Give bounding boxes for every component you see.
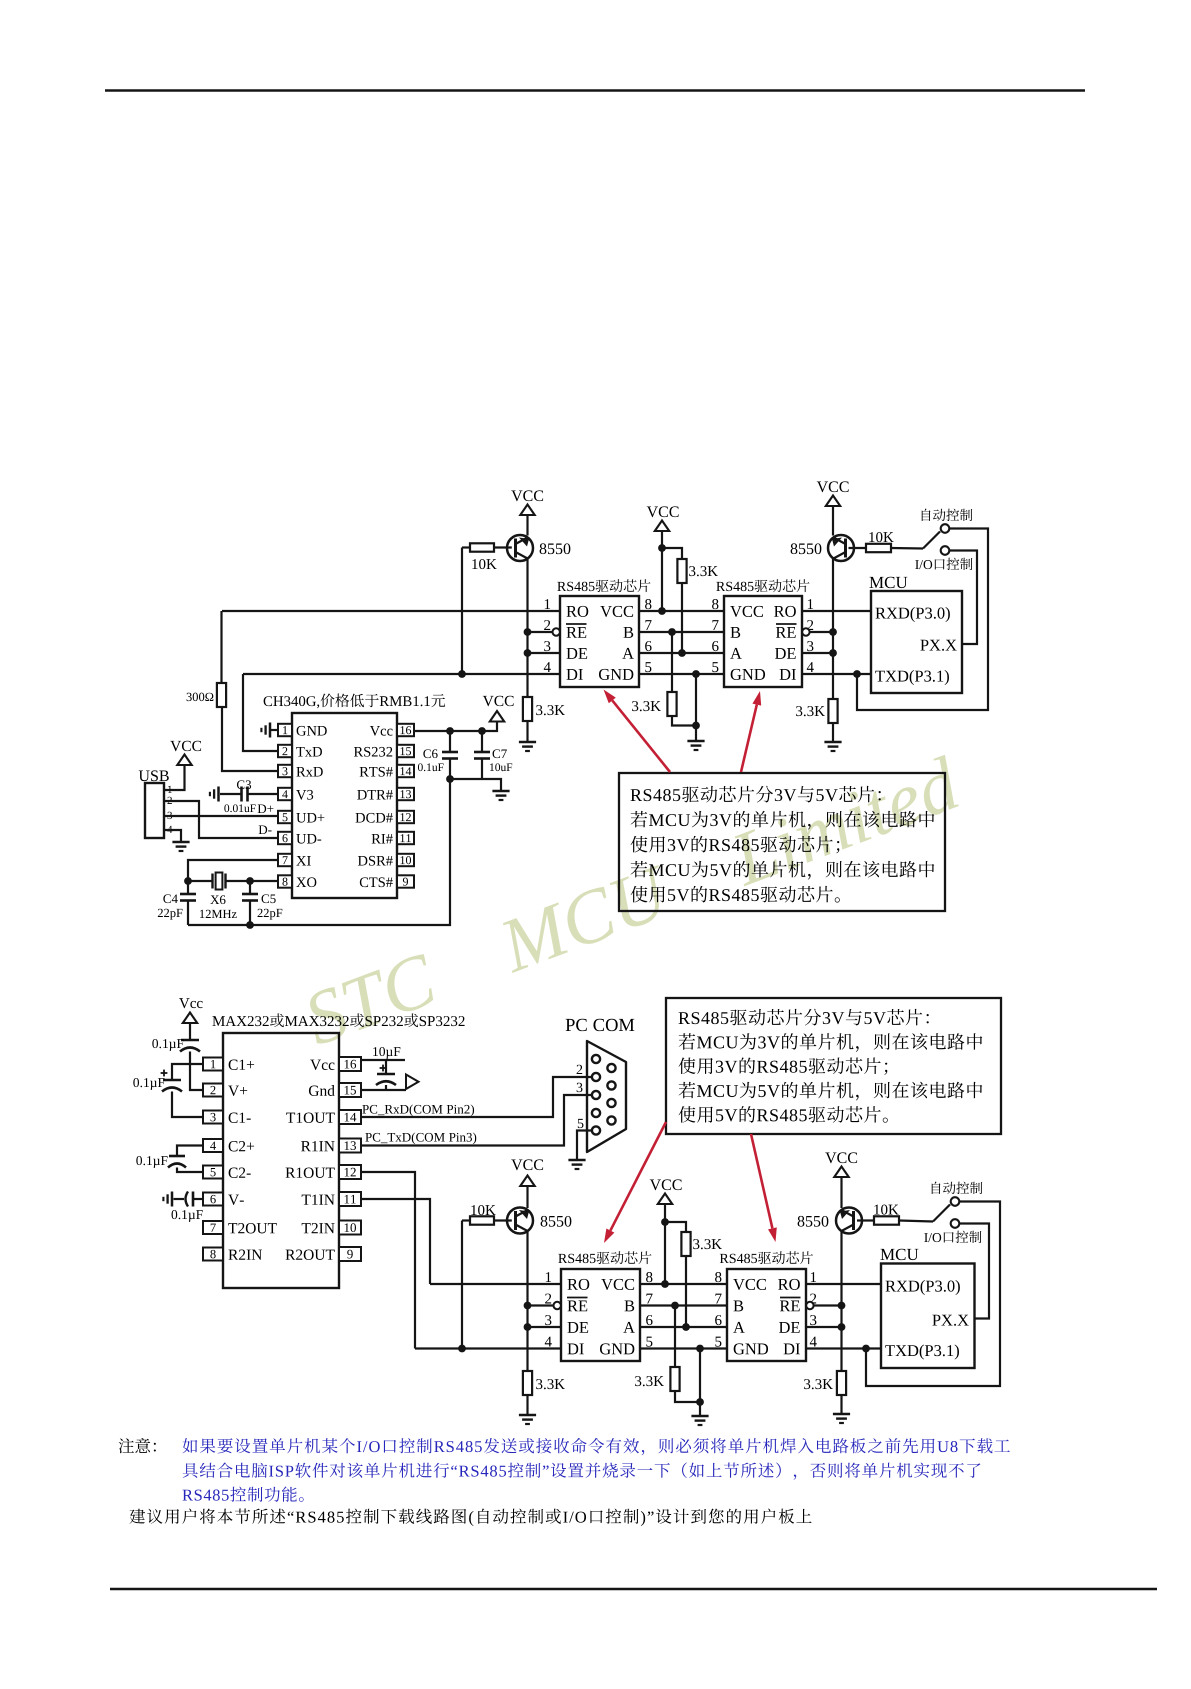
note box top line 3 — [631, 836, 648, 852]
red arrow to U2 — [612, 700, 670, 772]
connector PC COM DB9 — [566, 1019, 575, 1031]
MAX232 pin 3 C1- — [203, 1111, 223, 1124]
note box top line 1 — [631, 789, 642, 801]
red arrow to U6 — [610, 1122, 666, 1231]
note box RS485 driver 3V/5V bottom — [666, 998, 1001, 1134]
wire R1OUT to DI net — [361, 1172, 415, 1349]
DB9 hole left 1 — [592, 1055, 600, 1063]
wire U7 RO to MCU RXD — [806, 1283, 881, 1285]
U3 pin 4 DI — [807, 662, 814, 672]
note box RS485 driver 3V/5V top — [619, 773, 945, 911]
ground symbol at CH340G pin1 GND — [271, 729, 278, 731]
MAX232 pin 12 R1OUT — [339, 1165, 361, 1179]
note box bottom line 4 — [679, 1082, 696, 1099]
ground below Q1 3.3K — [519, 741, 536, 744]
ground at USB pin4 — [172, 841, 189, 844]
wire USB pin4 to ground — [164, 830, 181, 842]
wire USB pin1 to VCC — [164, 765, 185, 790]
note box bottom line 3 — [679, 1058, 696, 1074]
ground below C7 — [492, 790, 509, 793]
CH340G pin 7 XI — [278, 854, 292, 866]
CH340G pin 3 RxD — [278, 765, 292, 777]
U6 pin 8 VCC — [646, 1272, 652, 1282]
VCC symbol between U2 U3 — [647, 507, 658, 518]
wire Vcc pin16 net — [414, 722, 497, 731]
note box bottom line 2 — [679, 1033, 696, 1050]
note box bottom line 1 — [679, 1012, 690, 1024]
watermark STC MCU Limited — [299, 755, 963, 1047]
wire USB pin2 D- net — [164, 801, 278, 838]
capacitor 10uF at MAX232 Vcc pin16 — [361, 1059, 405, 1061]
crystal X6 12MHz — [188, 880, 213, 882]
resistor 3.3K pulldown B line bottom — [674, 1306, 676, 1368]
resistor 3.3K pullup A line bottom — [665, 1222, 686, 1232]
U7 pin 3 DE — [810, 1315, 816, 1325]
wire 10K to DI net — [461, 548, 463, 675]
transistor Q2 8550 with VCC — [817, 482, 828, 493]
wire U6 DI net — [415, 1347, 561, 1349]
resistor 10K at Q3 base — [462, 1219, 470, 1221]
U7 pin 1 RO — [811, 1272, 816, 1282]
IC U3 RS485 driver chip 2 — [716, 582, 725, 591]
MAX232 pin 10 T2IN — [339, 1221, 361, 1235]
wire GND net U6-U7 — [640, 1347, 727, 1349]
MAX232 pin 13 R1IN — [339, 1139, 361, 1153]
resistor 3.3K below Q2 — [828, 699, 837, 723]
wire S2 upper throw to TXD net — [866, 1202, 1000, 1387]
DB9 hole right 4 — [607, 1116, 615, 1124]
resistor 3.3K below Q3 — [523, 1371, 532, 1395]
DB9 hole right 1 — [607, 1064, 615, 1072]
capacitor 0.1uF C2+ to C2- — [177, 1146, 203, 1157]
MAX232 pin 4 C2+ — [203, 1139, 223, 1152]
CH340G pin 12 DCD# — [397, 811, 414, 823]
note box top line 5 — [631, 886, 648, 902]
resistor 3.3K below Q1 — [523, 697, 532, 721]
capacitor C5 22pF — [249, 881, 251, 894]
DB9 hole right 3 — [607, 1099, 615, 1107]
IC U2 RS485 driver chip 1 — [557, 582, 566, 591]
note box bottom line 5 — [679, 1106, 696, 1122]
U2 pin 3 DE — [544, 641, 550, 651]
DB9 hole right 2 — [607, 1081, 615, 1089]
wire R1IN to DB9 pin3 — [361, 1095, 592, 1146]
CH340G pin 16 Vcc — [397, 724, 414, 736]
label PC_RxD(COM Pin2) — [362, 1105, 368, 1114]
CH340G pin 10 DSR# — [397, 854, 414, 866]
U8 pin TXD(P3.1) — [885, 1345, 895, 1356]
wire S2 lower throw to PX.X — [959, 1224, 989, 1319]
transistor Q1 8550 with VCC — [511, 491, 522, 502]
CH340G pin 4 V3 — [278, 788, 292, 800]
wire RxD to 300ohm resistor — [222, 707, 278, 771]
U2 pin 7 B — [645, 620, 651, 630]
U7 pin 2 RE — [810, 1294, 816, 1304]
resistor 10K at Q4 base — [857, 1219, 874, 1221]
U4 pin PX.X — [920, 640, 928, 651]
U2 pin 2 RE — [544, 620, 550, 630]
U3 RE bubble and wire — [802, 628, 809, 635]
U6 pin 6 A — [646, 1315, 652, 1325]
wire U3 DI to MCU TXD — [802, 673, 871, 675]
border line bottom — [110, 1588, 1157, 1591]
U7 pin 4 DI — [810, 1337, 817, 1347]
capacitor C7 10uF — [481, 731, 483, 752]
wire C6 C7 to ground — [450, 779, 501, 791]
CH340G pin 15 RS232 — [397, 745, 414, 757]
label PC_TxD(COM Pin3) — [365, 1133, 371, 1142]
CH340G pin 2 TxD — [278, 745, 292, 757]
ground below DB9 — [568, 1159, 585, 1162]
wire 300ohm to RO net — [220, 611, 222, 683]
U8 pin RXD(P3.0) — [885, 1281, 896, 1292]
U3 pin 2 RE — [807, 620, 813, 630]
MAX232 pin 8 R2IN — [203, 1248, 223, 1261]
IC U5 MAX232 body — [223, 1033, 339, 1288]
U3 pin 5 GND — [712, 662, 718, 672]
DB9 hole left 3 — [592, 1091, 600, 1099]
IC U6 RS485 driver chip 3 — [558, 1254, 567, 1263]
DB9 hole left 4 — [592, 1109, 600, 1117]
note text line 2 — [183, 1463, 198, 1478]
wire VCC net U2-U3 — [639, 610, 724, 612]
wire Q1 collector down — [526, 559, 528, 697]
USB connector J1 — [139, 771, 150, 782]
suggestion text line — [129, 1509, 145, 1524]
wire A net U2-U3 — [639, 652, 724, 654]
wire XI net — [188, 860, 278, 881]
capacitor 0.1uF at MAX232 V+ — [181, 1039, 199, 1042]
capacitor C4 22pF — [187, 881, 189, 894]
IC U5 MAX232 title — [212, 1016, 224, 1026]
U2 RE bubble and wire — [553, 628, 560, 635]
resistor 10K at Q1 base — [462, 546, 470, 548]
U6 RE bubble and wire — [554, 1302, 561, 1309]
U8 pin PX.X — [932, 1315, 940, 1326]
note text line 3 — [182, 1490, 193, 1501]
MAX232 pin 15 Gnd — [339, 1083, 361, 1097]
transistor Q4 8550 with VCC — [825, 1153, 836, 1164]
resistor 300ohm — [217, 683, 226, 707]
IC U8 MCU — [880, 1249, 894, 1260]
wire U7 DE — [806, 1326, 842, 1328]
capacitor 0.1uF C1+ to C1- — [172, 1064, 203, 1080]
U6 pin 2 RE — [545, 1294, 551, 1304]
U6 pin 7 B — [646, 1294, 652, 1304]
MAX232 pin 11 T1IN — [339, 1192, 361, 1206]
wire T1IN to RO net — [361, 1199, 430, 1284]
U6 pin 4 DI — [545, 1337, 552, 1347]
wire Q4 collector down — [840, 1232, 842, 1372]
capacitor 0.1uF at V- with ground — [193, 1198, 203, 1200]
wire DB9 pin5 to ground — [577, 1131, 592, 1161]
wire Gnd pin15 with arrow symbol — [361, 1089, 406, 1091]
MAX232 pin 9 R2OUT — [339, 1247, 361, 1261]
red arrow to U7 — [751, 1134, 772, 1228]
MAX232 pin 16 Vcc — [339, 1057, 361, 1071]
MAX232 pin 14 T1OUT — [339, 1110, 361, 1124]
U2 pin 6 A — [645, 641, 651, 651]
U2 pin 4 DI — [544, 662, 551, 672]
VCC symbol above C7 — [483, 696, 494, 706]
wire VCC net U6-U7 — [640, 1283, 727, 1285]
MAX232 pin 5 C2- — [203, 1166, 223, 1179]
U2 pin 1 RO — [545, 599, 550, 609]
label D+ — [258, 804, 266, 813]
U4 pin TXD(P3.1) — [875, 671, 885, 682]
CH340G pin 1 GND — [278, 724, 292, 736]
capacitor C6 0.1uF — [449, 731, 451, 752]
wire 10K to DI net bottom — [461, 1221, 463, 1349]
wire U2 DI net — [243, 673, 560, 675]
resistor 3.3K below Q4 — [837, 1371, 846, 1395]
CH340G pin 6 UD- — [278, 832, 292, 844]
wire B net U2-U3 — [639, 631, 724, 633]
wire U3 RO to MCU RXD — [802, 610, 871, 612]
wire U6 DE — [528, 1326, 562, 1328]
U3 pin 8 VCC — [712, 599, 718, 609]
IC U1 CH340G — [264, 696, 272, 706]
capacitor C3 0.01uF — [248, 793, 278, 795]
CH340G pin 13 DTR# — [397, 788, 414, 800]
DB9 hole left 2 — [592, 1073, 600, 1081]
U3 pin 6 A — [712, 641, 718, 651]
MAX232 pin 7 T2OUT — [203, 1221, 223, 1234]
U2 pin 5 GND — [645, 662, 651, 672]
wire TxD to DI net vertical — [243, 674, 278, 751]
CH340G pin 9 CTS# — [397, 875, 414, 887]
U6 pin 1 RO — [546, 1272, 551, 1282]
wire U3 DE — [802, 652, 833, 654]
U7 pin 8 VCC — [715, 1272, 721, 1282]
U6 pin 5 GND — [646, 1337, 652, 1347]
IC U4 MCU — [869, 577, 883, 588]
wire Q3 collector down — [526, 1232, 528, 1372]
DB9 hole left 5 — [592, 1126, 600, 1134]
VCC symbol at MAX232 — [179, 998, 189, 1008]
wire U2 DE — [528, 652, 561, 654]
ground below Q3 3.3K — [519, 1414, 536, 1417]
red arrow to U3 — [741, 705, 757, 772]
ground below Q4 3.3K — [833, 1413, 850, 1416]
U2 pin 8 VCC — [645, 599, 651, 609]
CH340G pin 8 XO — [278, 875, 292, 887]
CH340G pin 11 RI# — [397, 832, 414, 844]
note box top line 2 — [631, 811, 648, 828]
U3 pin 1 RO — [808, 599, 813, 609]
wire U7 DI to MCU TXD — [806, 1347, 881, 1349]
ground below U2 U3 GND — [687, 740, 704, 743]
U4 pin RXD(P3.0) — [875, 608, 886, 619]
wire XO net — [250, 880, 278, 882]
IC U7 RS485 driver chip 4 — [720, 1254, 729, 1263]
switch S2 auto control — [933, 1205, 950, 1222]
wire crystal ground rail — [188, 779, 450, 925]
resistor 3.3K pulldown B line — [671, 632, 673, 692]
VCC symbol between U6 U7 — [650, 1180, 661, 1191]
CH340G pin 14 RTS# — [397, 765, 414, 777]
note text line 1 — [119, 1438, 134, 1453]
wire U2 RO to RxD net — [222, 610, 560, 612]
wire Q2 collector down — [832, 559, 834, 699]
MAX232 pin 1 C1+ — [203, 1058, 223, 1071]
ground below Q2 3.3K — [824, 741, 841, 744]
border line top — [105, 89, 1085, 91]
U7 pin 6 A — [715, 1315, 721, 1325]
U7 pin 5 GND — [715, 1337, 721, 1347]
CH340G pin 5 UD+ — [278, 811, 292, 823]
label D- — [259, 825, 267, 834]
wire A net U6-U7 — [640, 1326, 727, 1328]
U3 pin 7 B — [712, 620, 718, 630]
transistor Q3 8550 with VCC — [511, 1160, 522, 1171]
U3 pin 3 DE — [807, 641, 813, 651]
wire USB pin3 D+ net — [164, 815, 278, 817]
note box top line 4 — [631, 861, 648, 878]
resistor 3.3K pullup A line — [662, 548, 682, 559]
U7 RE bubble and wire — [806, 1302, 813, 1309]
wire B net U6-U7 — [640, 1304, 727, 1306]
ground below U6 U7 GND — [691, 1415, 708, 1418]
wire T1OUT to DB9 pin2 — [361, 1077, 592, 1117]
U6 pin 3 DE — [545, 1315, 551, 1325]
U7 pin 7 B — [715, 1294, 721, 1304]
DB9 pin labels 2 3 5 — [577, 1065, 583, 1074]
MAX232 pin 2 V+ — [203, 1084, 223, 1097]
wire GND net U2-U3 — [639, 673, 724, 675]
MAX232 pin 6 V- — [203, 1193, 223, 1206]
VCC symbol at USB pin1 — [170, 741, 181, 751]
wire U6 RO net — [430, 1283, 561, 1285]
switch S1 auto control — [923, 532, 940, 549]
wire S1 upper throw to TXD net — [857, 529, 988, 711]
resistor 10K at Q2 base — [849, 547, 867, 549]
wire S1 lower throw to PX.X — [949, 551, 977, 645]
